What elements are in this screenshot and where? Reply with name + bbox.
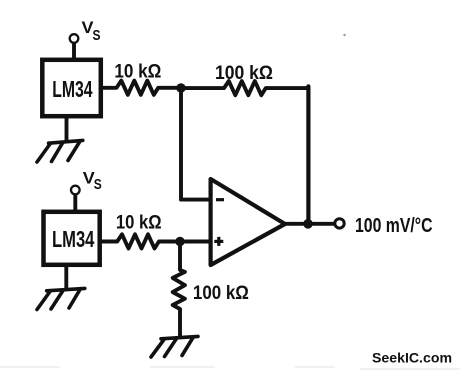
svg-text:LM34: LM34 (52, 76, 93, 102)
node B (non-inverting input junction) (175, 237, 184, 246)
terminal VS2 (supply terminal, bottom sensor) (71, 186, 80, 195)
wire U2 to ground 2 (64, 264, 68, 290)
ground 2 (bottom sensor) (37, 288, 85, 309)
pin label minus (inverting input) (216, 198, 224, 201)
wire node B down to R4 (178, 242, 182, 271)
svg-text:100 mV/°C: 100 mV/°C (355, 215, 433, 237)
svg-text:S: S (93, 27, 101, 44)
svg-text:SeekIC.com: SeekIC.com (372, 350, 452, 365)
label VS1 (82, 18, 101, 44)
resistor R4 100 kOhm (vertical, to ground) with leads (173, 269, 185, 310)
svg-text:10 kΩ: 10 kΩ (116, 212, 162, 234)
svg-text:S: S (94, 176, 102, 193)
pin label plus (non-inverting input) (214, 237, 223, 246)
wire R4 to ground 3 (178, 309, 182, 338)
node C (output junction) (303, 219, 313, 229)
resistor R3 10 kOhm (bottom input) with leads (100, 234, 181, 248)
wire op-amp output (284, 222, 335, 226)
resistor R2 100 kOhm (feedback) with leads (181, 81, 308, 95)
wire node A down to inverting input (181, 90, 209, 200)
svg-text:LM34: LM34 (52, 226, 95, 252)
wire feedback vertical from R2 to output node (306, 86, 310, 224)
terminal OUT (open circle) (335, 219, 344, 228)
ground 3 (below R4) (151, 336, 198, 357)
svg-text:10 kΩ: 10 kΩ (114, 61, 161, 83)
sensor U1 LM34 (top) (42, 60, 101, 116)
resistor R1 10 kOhm (top input) with leads (101, 81, 181, 95)
wire U1 to ground 1 (65, 116, 69, 142)
scan artifact faint line (0, 367, 460, 369)
label VS2 (83, 169, 102, 194)
svg-text:100 kΩ: 100 kΩ (193, 282, 249, 304)
ground 1 (top sensor) (37, 140, 83, 162)
svg-text:100 kΩ: 100 kΩ (215, 62, 273, 84)
op-amp U3 (211, 179, 285, 265)
sensor U2 LM34 (bottom) (44, 212, 100, 265)
speckle artifact (343, 34, 345, 36)
node A (summing junction, top) (176, 83, 185, 92)
terminal VS1 (supply terminal, top sensor) (70, 34, 79, 43)
wire VS2 to U2 (73, 195, 77, 211)
wire node B to non-inverting input (180, 240, 209, 244)
wire VS1 to U1 (72, 44, 76, 60)
